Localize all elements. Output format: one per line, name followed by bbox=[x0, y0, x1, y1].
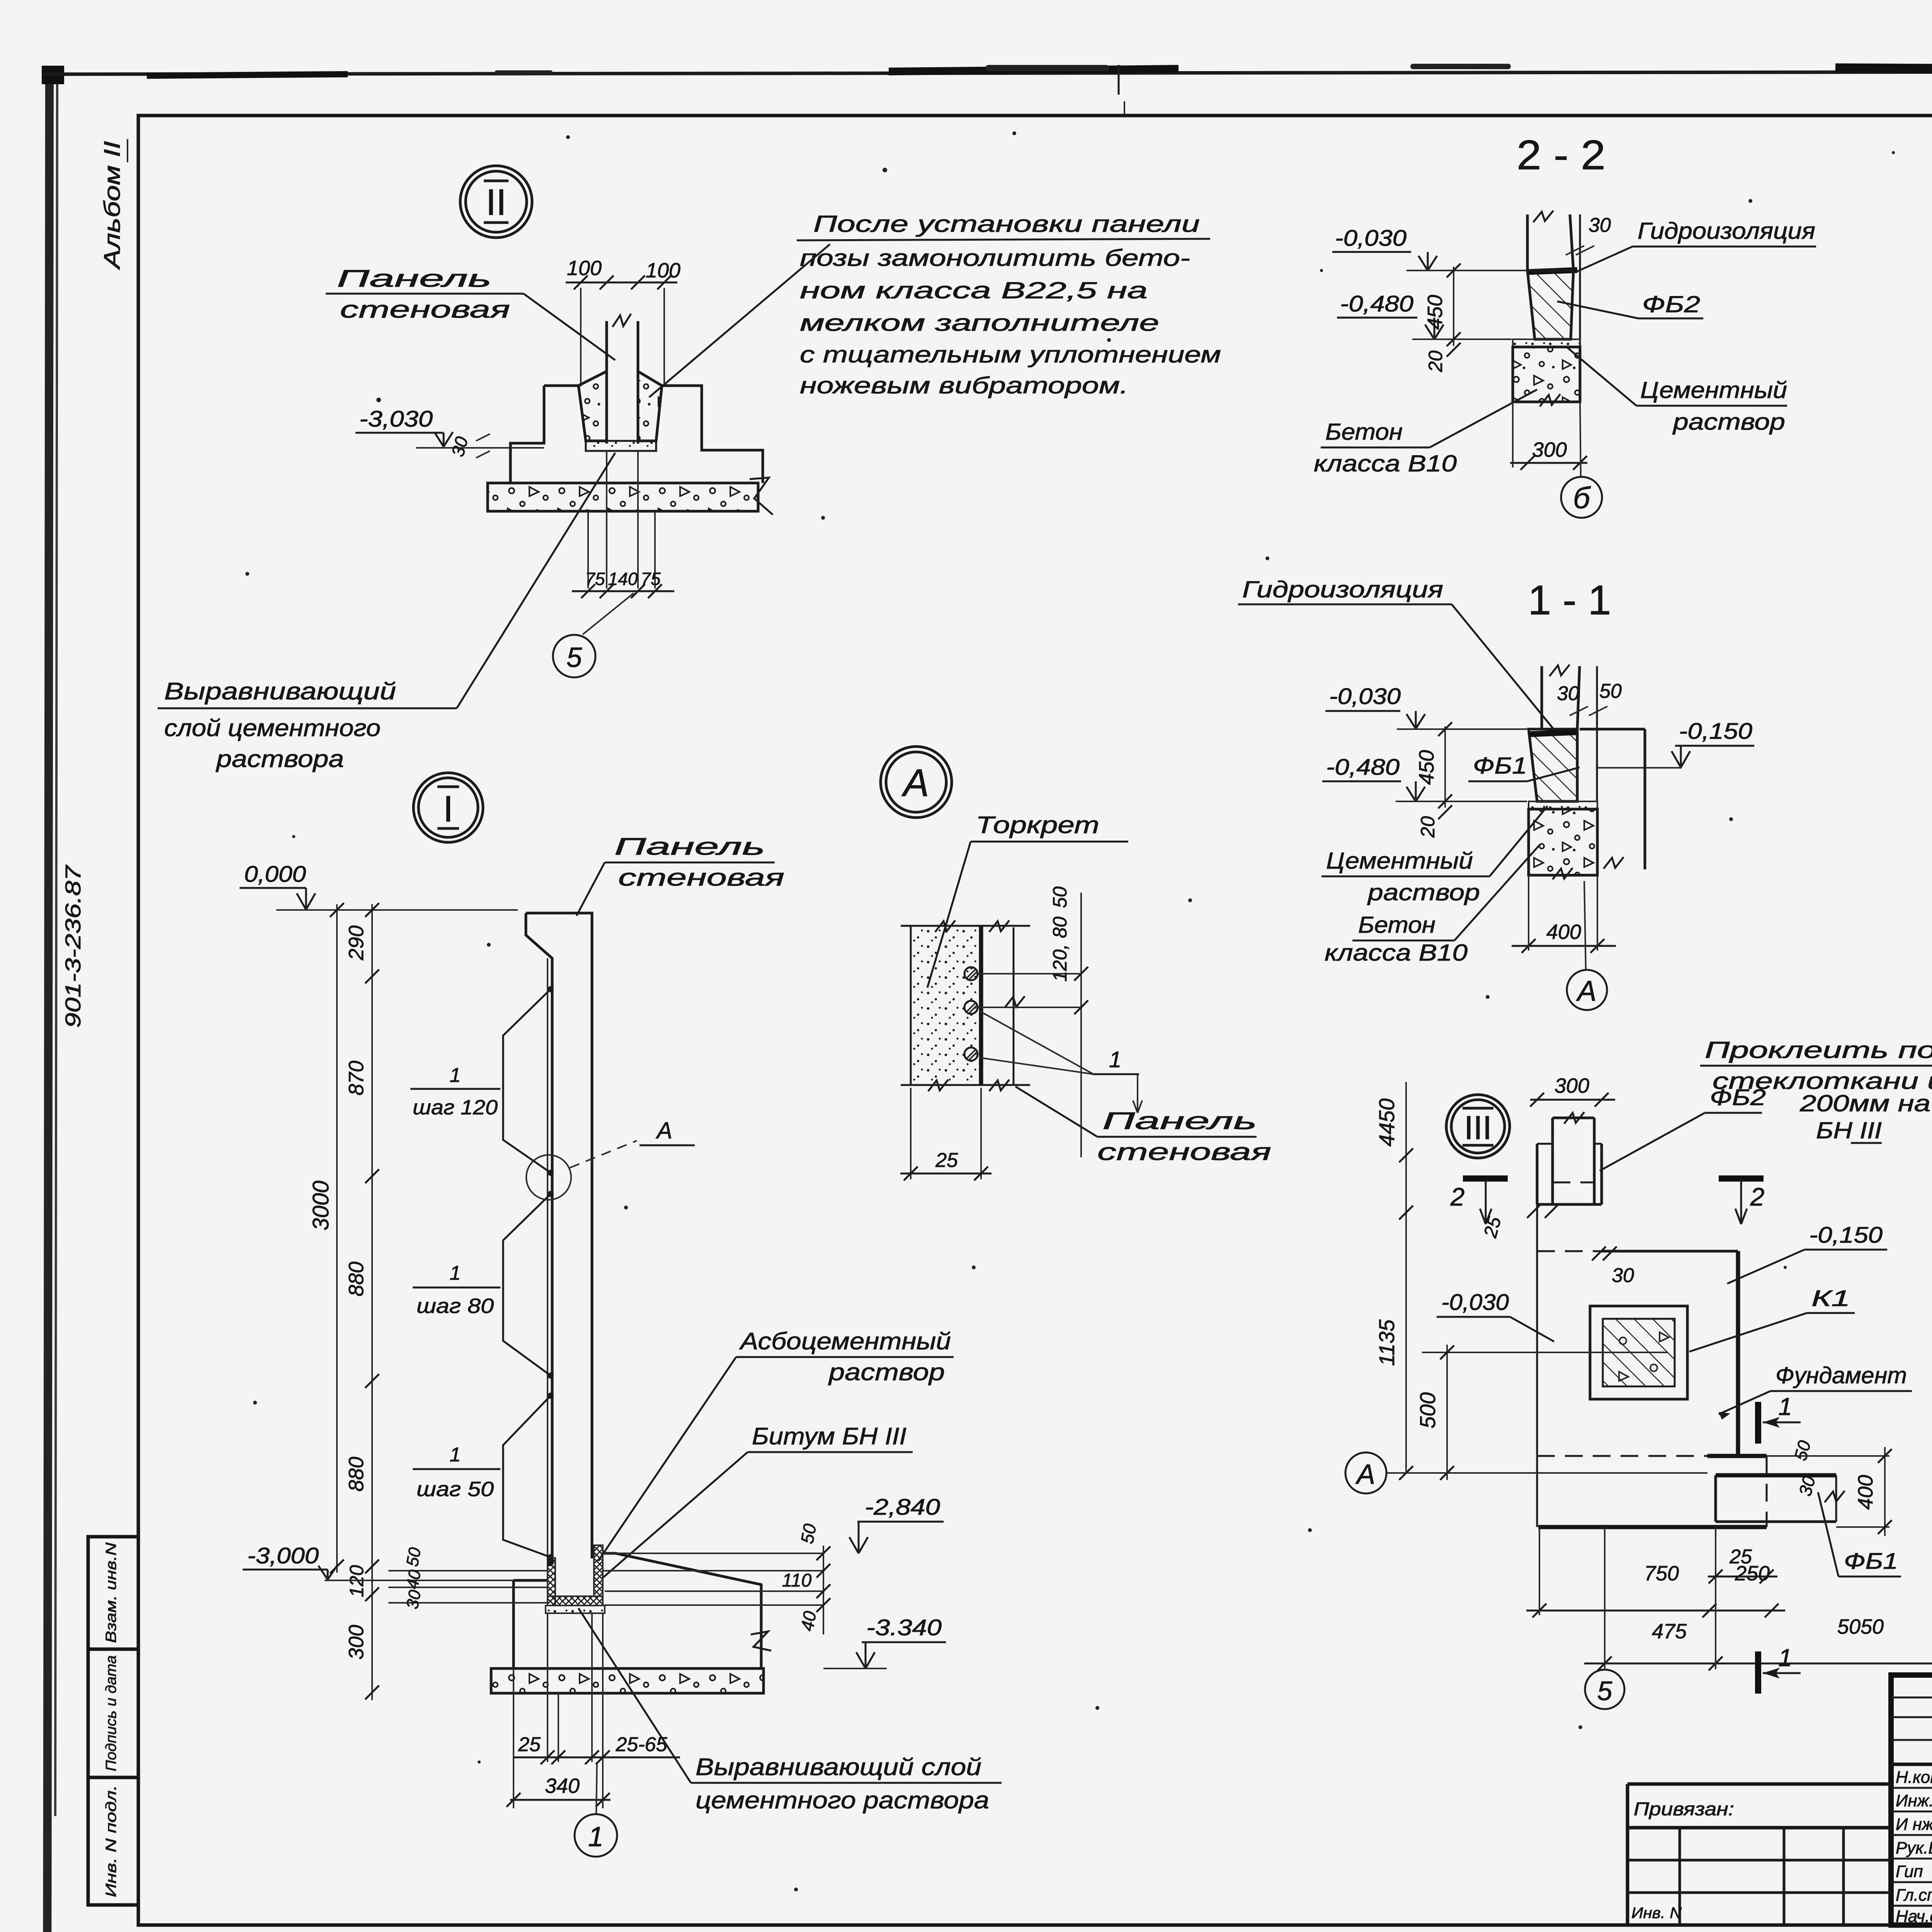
dim 25 bbox=[910, 1088, 912, 1179]
LEFT MARGIN bbox=[61, 139, 138, 1905]
position bubble 1 bbox=[596, 1762, 597, 1814]
svg-text:Битум БН III: Битум БН III bbox=[752, 1423, 906, 1450]
svg-text:20: 20 bbox=[1425, 350, 1446, 372]
name rows bbox=[1891, 1787, 1932, 1789]
svg-text:Бетон: Бетон bbox=[1325, 419, 1403, 445]
svg-text:1 - 1: 1 - 1 bbox=[1528, 577, 1611, 623]
svg-text:25: 25 bbox=[518, 1733, 541, 1756]
svg-text:-0,030: -0,030 bbox=[1329, 684, 1401, 709]
cement strip bbox=[1529, 801, 1597, 809]
svg-text:-0,480: -0,480 bbox=[1340, 291, 1413, 316]
svg-text:1: 1 bbox=[1778, 1393, 1792, 1420]
svg-text:стеновая: стеновая bbox=[340, 296, 510, 323]
DETAIL II bbox=[158, 166, 1221, 772]
svg-text:450: 450 bbox=[1423, 295, 1447, 330]
FB1 block in plan bbox=[1716, 1473, 1836, 1478]
torkret layer on left face bbox=[547, 958, 548, 1564]
section mark 2 right bbox=[1719, 1175, 1764, 1182]
svg-text:80: 80 bbox=[1049, 917, 1071, 938]
monolith concrete fill right bbox=[638, 371, 662, 441]
extension lines below bbox=[587, 511, 589, 588]
dim chain outer 3000 bbox=[336, 904, 338, 1573]
svg-text:Инв. N: Инв. N bbox=[1631, 1905, 1682, 1922]
svg-text:Гидроизоляция: Гидроизоляция bbox=[1242, 577, 1443, 602]
svg-text:ФБ1: ФБ1 bbox=[1844, 1549, 1898, 1574]
svg-text:ФБ2: ФБ2 bbox=[1710, 1085, 1766, 1110]
svg-text:Нач.отд.: Нач.отд. bbox=[1896, 1907, 1932, 1926]
svg-text:б: б bbox=[1573, 481, 1591, 515]
svg-text:И нж.: И нж. bbox=[1896, 1815, 1932, 1834]
svg-text:5: 5 bbox=[1597, 1676, 1613, 1706]
svg-text:Взам. инв.N: Взам. инв.N bbox=[103, 1542, 119, 1643]
left annex bbox=[1628, 1782, 1891, 1786]
detail circle A on panel bbox=[526, 1155, 571, 1200]
svg-text:К1: К1 bbox=[1811, 1286, 1850, 1311]
svg-text:мелком заполнителе: мелком заполнителе bbox=[800, 310, 1159, 336]
svg-text:2 - 2: 2 - 2 bbox=[1517, 131, 1605, 178]
section mark 2 left bbox=[1463, 1175, 1508, 1182]
svg-text:-0,030: -0,030 bbox=[1335, 226, 1406, 251]
svg-text:Панель: Панель bbox=[614, 833, 765, 860]
svg-text:класса В10: класса В10 bbox=[1325, 940, 1468, 966]
section mark 1 lower bbox=[1755, 1651, 1761, 1694]
svg-text:Н.конт.: Н.конт. bbox=[1896, 1768, 1932, 1787]
K1 axis line bbox=[1422, 1352, 1667, 1353]
position bubble 5 bbox=[553, 635, 595, 677]
svg-text:Асбоцементный: Асбоцементный bbox=[739, 1328, 951, 1355]
svg-text:II: II bbox=[486, 182, 506, 223]
svg-text:4450: 4450 bbox=[1374, 1099, 1399, 1147]
svg-text:30: 30 bbox=[1588, 214, 1611, 236]
leader from note to joint bbox=[649, 244, 830, 397]
svg-text:Бетон: Бетон bbox=[1358, 912, 1435, 938]
dim chain inner bbox=[371, 904, 373, 1700]
right small dim chain bbox=[823, 1546, 824, 1634]
svg-text:0,000: 0,000 bbox=[244, 862, 306, 887]
svg-text:75: 75 bbox=[641, 569, 661, 589]
svg-text:-3,030: -3,030 bbox=[359, 406, 433, 432]
svg-text:400: 400 bbox=[1546, 920, 1581, 944]
monolith concrete fill left bbox=[578, 371, 607, 441]
svg-text:1: 1 bbox=[450, 1262, 461, 1284]
svg-text:А: А bbox=[901, 761, 929, 804]
lower dims bbox=[547, 1613, 548, 1762]
svg-text:475: 475 bbox=[1652, 1620, 1687, 1643]
svg-text:5050: 5050 bbox=[1837, 1615, 1884, 1638]
svg-text:Привязан:: Привязан: bbox=[1634, 1799, 1734, 1820]
dim 450 bbox=[1444, 726, 1446, 808]
FB2 wall in plan (U block) bbox=[1536, 1144, 1539, 1204]
svg-text:Подпись и дата: Подпись и дата bbox=[103, 1655, 119, 1771]
dims 1135 500 bbox=[1405, 1171, 1407, 1473]
svg-text:20: 20 bbox=[1417, 816, 1439, 838]
thin lines right bbox=[603, 1570, 823, 1571]
svg-text:класса В10: класса В10 bbox=[1314, 451, 1457, 476]
svg-text:30: 30 bbox=[403, 1588, 425, 1611]
svg-text:ФБ2: ФБ2 bbox=[1642, 291, 1700, 317]
svg-text:Фундамент: Фундамент bbox=[1776, 1362, 1907, 1388]
svg-text:50: 50 bbox=[403, 1546, 425, 1568]
svg-text:Цементный: Цементный bbox=[1640, 377, 1787, 403]
svg-text:1: 1 bbox=[1109, 1047, 1121, 1072]
cement strip bbox=[1513, 339, 1580, 347]
svg-text:50: 50 bbox=[1599, 680, 1622, 702]
svg-text:400: 400 bbox=[1854, 1475, 1877, 1510]
SECTION 2-2 bbox=[1314, 131, 1816, 518]
main slab bbox=[1602, 1250, 1738, 1253]
svg-text:шаг 120: шаг 120 bbox=[413, 1096, 498, 1119]
dim 100 100 bbox=[580, 288, 582, 386]
FB1 hatched block bbox=[1529, 729, 1577, 801]
svg-text:ном класса В22,5 на: ном класса В22,5 на bbox=[800, 277, 1148, 303]
wall panel bbox=[605, 321, 608, 444]
svg-text:340: 340 bbox=[545, 1774, 580, 1798]
svg-text:А: А bbox=[1355, 1459, 1375, 1490]
base slab bbox=[491, 1668, 764, 1693]
svg-text:Гидроизоляция: Гидроизоляция bbox=[1638, 218, 1815, 244]
axis bubble Б bbox=[1580, 402, 1581, 476]
svg-text:шаг 80: шаг 80 bbox=[417, 1294, 494, 1318]
dim 4450 bbox=[1405, 1082, 1407, 1171]
svg-text:40: 40 bbox=[797, 1609, 820, 1633]
step brackets bbox=[548, 986, 554, 992]
dim 450 bbox=[1453, 267, 1454, 346]
outer line bbox=[1596, 666, 1598, 801]
svg-text:-0,030: -0,030 bbox=[1441, 1290, 1509, 1315]
fold mark tick bbox=[1118, 65, 1120, 95]
svg-text:300: 300 bbox=[1532, 438, 1567, 461]
wall panel bbox=[1541, 666, 1543, 729]
node bubble A bbox=[881, 747, 952, 818]
bitum cup seal bbox=[548, 1558, 555, 1605]
svg-text:БН III: БН III bbox=[1816, 1117, 1882, 1143]
hidden edge below U bbox=[1537, 1250, 1602, 1252]
svg-text:250: 250 bbox=[1735, 1562, 1770, 1585]
svg-text:раствор: раствор bbox=[1367, 879, 1480, 905]
svg-text:300: 300 bbox=[1554, 1074, 1589, 1097]
svg-text:А: А bbox=[1576, 975, 1596, 1007]
leader to cement strip bbox=[457, 453, 615, 708]
svg-text:раствор: раствор bbox=[828, 1359, 945, 1386]
svg-text:-3.340: -3.340 bbox=[866, 1615, 942, 1640]
svg-text:880: 880 bbox=[345, 1262, 368, 1296]
node bubble III bbox=[1446, 1095, 1510, 1158]
svg-text:50: 50 bbox=[797, 1522, 820, 1545]
svg-text:25: 25 bbox=[935, 1149, 958, 1172]
DETAIL IV bbox=[1700, 711, 1932, 1271]
TITLE BLOCK bbox=[1628, 1675, 1932, 1932]
svg-text:110: 110 bbox=[782, 1570, 812, 1591]
inner face line bbox=[1013, 927, 1015, 1085]
svg-text:2: 2 bbox=[1450, 1182, 1465, 1211]
svg-text:цементного раствора: цементного раствора bbox=[696, 1787, 989, 1814]
svg-text:раствор: раствор bbox=[1672, 409, 1785, 435]
DETAIL IV bbox=[0, 0, 0, 0]
DETAIL I bbox=[240, 773, 1002, 1857]
hydro layer bbox=[1528, 270, 1577, 272]
svg-text:300: 300 bbox=[345, 1625, 368, 1660]
svg-text:1: 1 bbox=[1778, 1644, 1792, 1672]
svg-text:ФБ1: ФБ1 bbox=[1473, 753, 1527, 779]
svg-text:750: 750 bbox=[1644, 1562, 1679, 1585]
right slope bbox=[603, 1553, 761, 1668]
svg-text:слой цементного: слой цементного bbox=[164, 715, 381, 742]
svg-text:Панель: Панель bbox=[337, 265, 492, 292]
foundation outline bbox=[544, 384, 578, 387]
leader to circle 5 bbox=[583, 593, 634, 634]
svg-text:2: 2 bbox=[1750, 1182, 1765, 1211]
svg-text:30: 30 bbox=[1557, 682, 1579, 705]
DETAIL A bbox=[881, 747, 1271, 1180]
svg-text:Выравнивающий слой: Выравнивающий слой bbox=[696, 1754, 981, 1781]
foundation left bbox=[514, 1579, 548, 1582]
svg-text:1: 1 bbox=[450, 1064, 461, 1087]
svg-text:880: 880 bbox=[345, 1457, 368, 1492]
dim lines for bolt spacing bbox=[978, 973, 1081, 975]
axis bubble A bbox=[1584, 881, 1586, 969]
svg-text:100: 100 bbox=[567, 257, 602, 280]
svg-text:1: 1 bbox=[588, 1821, 604, 1852]
svg-text:140: 140 bbox=[608, 569, 638, 589]
svg-text:50: 50 bbox=[1049, 886, 1071, 908]
outer face line bbox=[1579, 214, 1581, 402]
left stamp boxes bbox=[88, 1537, 138, 1649]
svg-text:Цементный: Цементный bbox=[1326, 848, 1473, 874]
svg-text:30: 30 bbox=[1612, 1264, 1634, 1287]
axis bubble A with line bbox=[1345, 1452, 1386, 1493]
svg-text:I: I bbox=[443, 788, 454, 830]
svg-text:Рук.Бр.: Рук.Бр. bbox=[1896, 1838, 1932, 1857]
svg-text:200мм на битуме: 200мм на битуме bbox=[1799, 1090, 1932, 1116]
SECTION 1-1 bbox=[0, 0, 0, 0]
top empty rows bbox=[1891, 1697, 1932, 1699]
svg-text:3000: 3000 bbox=[308, 1180, 333, 1230]
torn left paper edge bbox=[47, 68, 49, 1932]
svg-text:1135: 1135 bbox=[1374, 1319, 1399, 1366]
FB2 block hatched bbox=[1527, 270, 1573, 339]
K1 column bbox=[1590, 1306, 1687, 1399]
svg-text:75: 75 bbox=[585, 569, 605, 589]
svg-text:450: 450 bbox=[1415, 750, 1438, 785]
concrete block bbox=[1529, 809, 1597, 875]
leveling cement strip bbox=[586, 441, 656, 451]
svg-text:ножевым вибратором.: ножевым вибратором. bbox=[800, 372, 1128, 398]
svg-text:901-3-236.87: 901-3-236.87 bbox=[61, 865, 85, 1028]
svg-text:Панель: Панель bbox=[1102, 1108, 1257, 1134]
section mark 1 upper bbox=[1755, 1402, 1761, 1444]
svg-text:-3,000: -3,000 bbox=[247, 1543, 319, 1568]
svg-text:25-65: 25-65 bbox=[616, 1733, 668, 1756]
svg-text:А: А bbox=[656, 1117, 672, 1143]
node bubble II bbox=[460, 166, 532, 238]
outer top border line bbox=[43, 71, 1932, 74]
svg-text:40: 40 bbox=[403, 1568, 425, 1590]
svg-text:Альбом II: Альбом II bbox=[100, 141, 125, 270]
leader to panel bbox=[524, 294, 615, 360]
svg-text:шаг 50: шаг 50 bbox=[417, 1478, 494, 1501]
main stamp frame bbox=[1891, 1675, 1932, 1925]
svg-text:стеновая: стеновая bbox=[1097, 1139, 1271, 1165]
svg-text:Выравнивающий: Выравнивающий bbox=[164, 678, 396, 705]
svg-text:Торкрет: Торкрет bbox=[976, 812, 1099, 838]
wall strip with torkret bbox=[911, 926, 981, 1085]
wall panel outline bbox=[526, 913, 592, 1558]
svg-text:III: III bbox=[1464, 1109, 1492, 1146]
DETAIL III bbox=[1345, 1074, 1932, 1709]
fixation bolts bbox=[964, 967, 978, 980]
svg-text:раствора: раствора bbox=[216, 746, 344, 772]
svg-text:Инв. N подл.: Инв. N подл. bbox=[103, 1785, 119, 1897]
svg-text:120,: 120, bbox=[1049, 944, 1071, 981]
SECTION 1-1 bbox=[1238, 577, 1754, 1010]
svg-text:-0,150: -0,150 bbox=[1679, 719, 1752, 744]
base slab bbox=[488, 483, 758, 511]
wall panel above bbox=[1526, 214, 1529, 270]
svg-text:Гл.спец.: Гл.спец. bbox=[1896, 1886, 1932, 1905]
svg-text:1: 1 bbox=[450, 1444, 461, 1466]
svg-text:100: 100 bbox=[646, 259, 680, 282]
position bubble 5 bbox=[1604, 1527, 1605, 1668]
svg-text:870: 870 bbox=[345, 1061, 368, 1095]
right wall body bbox=[1580, 728, 1645, 731]
svg-text:-0,150: -0,150 bbox=[1809, 1223, 1883, 1248]
svg-text:500: 500 bbox=[1415, 1392, 1440, 1428]
svg-text:-0,480: -0,480 bbox=[1326, 755, 1400, 780]
svg-text:стеновая: стеновая bbox=[618, 864, 784, 891]
svg-text:Гип: Гип bbox=[1896, 1862, 1923, 1881]
svg-text:290: 290 bbox=[345, 925, 368, 961]
svg-text:5: 5 bbox=[566, 642, 582, 673]
concrete B10 block bbox=[1513, 347, 1580, 402]
svg-text:Инж.: Инж. bbox=[1896, 1791, 1932, 1810]
svg-text:с тщательным уплотнением: с тщательным уплотнением bbox=[800, 342, 1221, 367]
svg-text:Проклеить полосой: Проклеить полосой bbox=[1705, 1037, 1932, 1063]
node bubble I bbox=[413, 773, 483, 842]
svg-text:позы замонолитить бето-: позы замонолитить бето- bbox=[800, 245, 1190, 271]
level line -3.030 bbox=[416, 447, 544, 449]
svg-text:-2,840: -2,840 bbox=[865, 1495, 940, 1520]
svg-text:После установки панели: После установки панели bbox=[813, 211, 1200, 237]
